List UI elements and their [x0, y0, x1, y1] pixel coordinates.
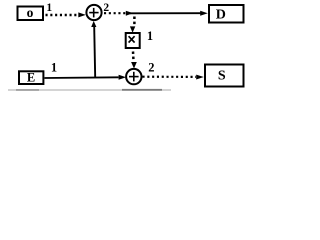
svg-text:1: 1 — [46, 2, 52, 14]
svg-text:S: S — [218, 68, 226, 83]
svg-text:o: o — [27, 5, 34, 20]
svg-text:2: 2 — [148, 61, 154, 75]
svg-text:D: D — [216, 8, 226, 23]
svg-text:E: E — [27, 70, 35, 84]
svg-text:1: 1 — [147, 29, 153, 43]
svg-text:1: 1 — [51, 61, 57, 75]
